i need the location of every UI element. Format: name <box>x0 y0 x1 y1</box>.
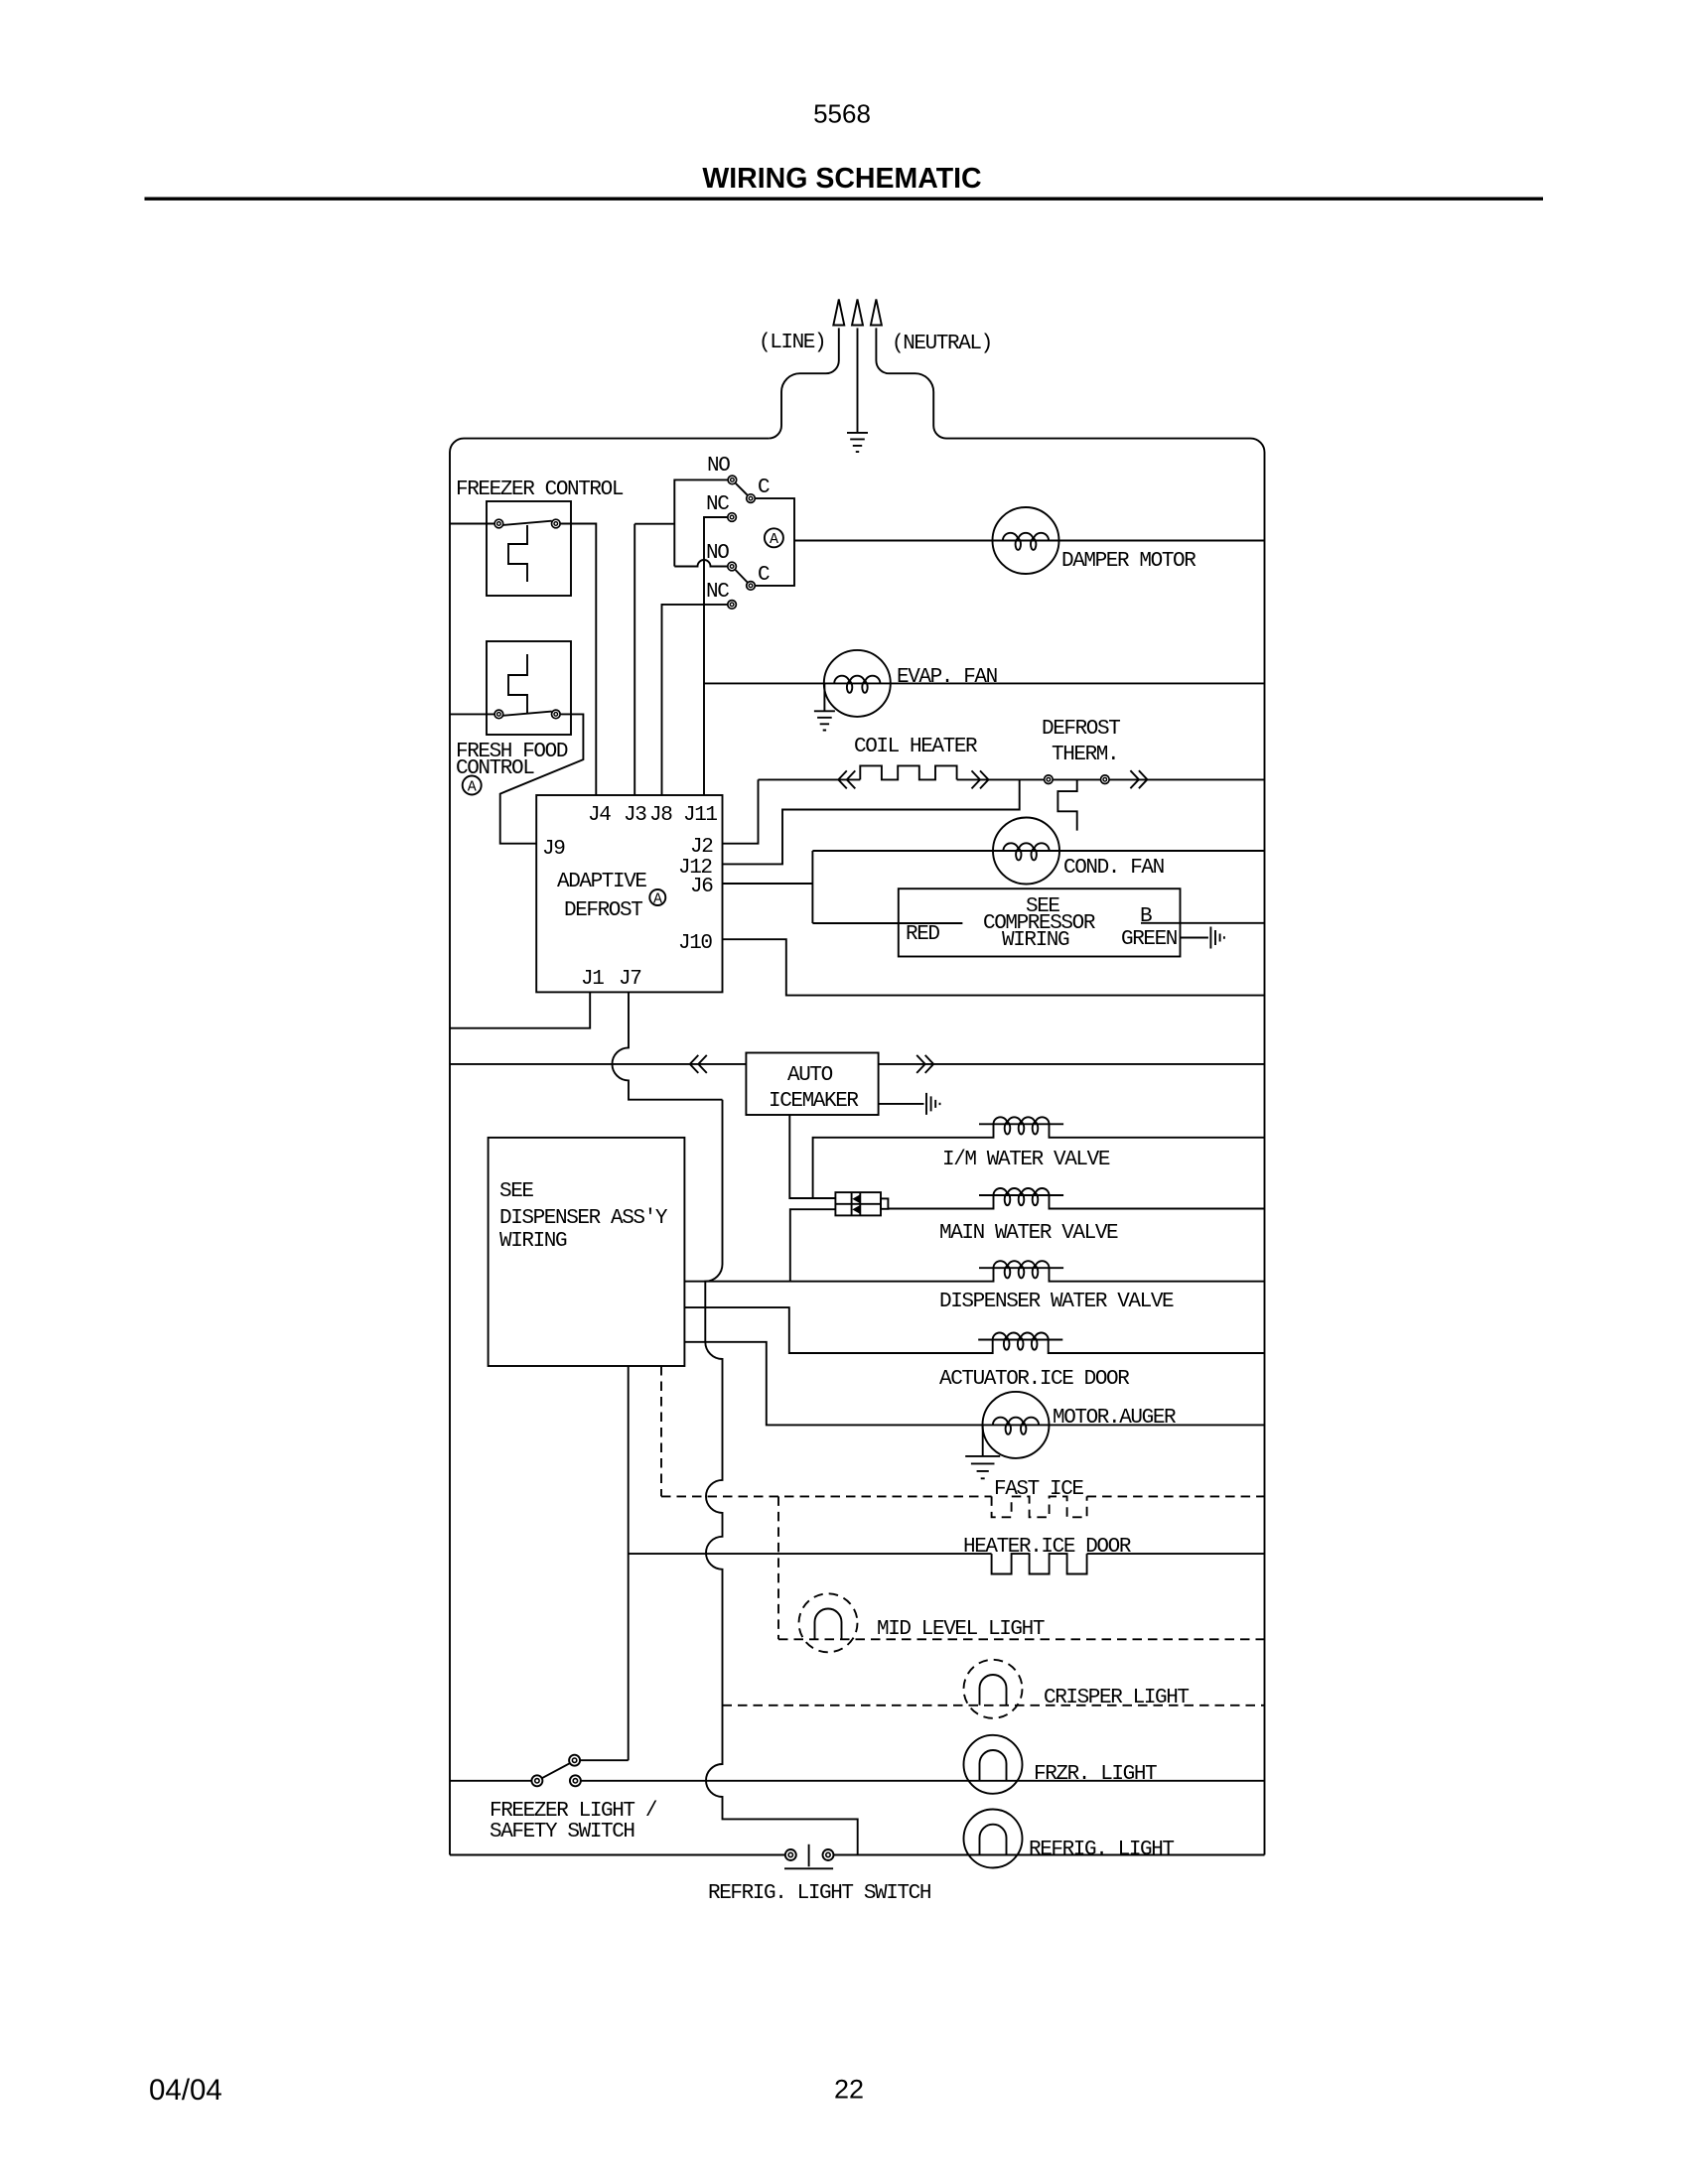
wire cond fan feed riser <box>811 851 813 923</box>
svg-text:FRZR. LIGHT: FRZR. LIGHT <box>1034 1763 1157 1786</box>
wire J6 to cond fan riser <box>723 883 813 885</box>
svg-text:REFRIG. LIGHT SWITCH: REFRIG. LIGHT SWITCH <box>708 1882 930 1905</box>
heater ice door line left <box>629 1553 992 1555</box>
wire dispenser valve right to border <box>1050 1268 1265 1282</box>
svg-text:NO: NO <box>707 455 730 478</box>
defrost therm terminal left <box>1045 775 1054 784</box>
wire evap fan feed <box>704 682 824 684</box>
freezer control thermostat zigzag <box>508 525 527 582</box>
svg-text:J3: J3 <box>624 804 646 827</box>
svg-text:NC: NC <box>706 581 729 604</box>
adaptive defrost control box <box>536 795 722 992</box>
auger ground stem <box>982 1426 984 1456</box>
see dispenser assy wiring box <box>489 1138 685 1366</box>
svg-text:WIRING: WIRING <box>1002 929 1069 952</box>
outer border top-right segment <box>946 439 1265 1855</box>
fresh food control box <box>487 641 571 735</box>
svg-text:EVAP. FAN: EVAP. FAN <box>897 666 997 689</box>
heater ice door element wave <box>992 1554 1087 1573</box>
svg-text:J9: J9 <box>542 838 565 861</box>
defrost therm terminal right <box>1101 775 1110 784</box>
svg-text:SAFETY SWITCH: SAFETY SWITCH <box>490 1821 634 1843</box>
plug pin arrow NEUTRAL <box>871 300 882 326</box>
fresh food terminal right <box>552 710 561 719</box>
safety switch blade <box>542 1763 570 1778</box>
crisper light dashed line <box>723 1705 1265 1706</box>
svg-text:FREEZER LIGHT /: FREEZER LIGHT / <box>490 1800 657 1823</box>
svg-text:J1: J1 <box>581 968 604 991</box>
svg-text:NC: NC <box>706 493 729 516</box>
relay contact terminal C1 <box>747 494 756 503</box>
mid level light filament <box>815 1609 842 1640</box>
chassis ground (icemaker) <box>926 1093 940 1115</box>
wire NC2 to J8 <box>662 605 728 795</box>
svg-text:MAIN WATER VALVE: MAIN WATER VALVE <box>939 1222 1118 1245</box>
fast ice dashed switch wave <box>992 1496 1087 1517</box>
svg-text:WIRING SCHEMATIC: WIRING SCHEMATIC <box>702 163 981 195</box>
water valve inlet triangle lower <box>852 1205 860 1214</box>
wire safety switch upper to heater drop <box>580 1759 629 1761</box>
svg-text:J2: J2 <box>690 836 713 859</box>
svg-text:FAST ICE: FAST ICE <box>994 1478 1083 1501</box>
wire left border to fresh food control <box>450 713 494 715</box>
wire icemaker chassis ground lead <box>879 1103 924 1105</box>
evap fan ground stem <box>823 684 825 711</box>
relay A frame <box>756 498 795 586</box>
svg-text:AUTO: AUTO <box>787 1064 833 1087</box>
svg-text:J4: J4 <box>588 804 611 827</box>
wire heater node tap down to J12 <box>723 779 1020 864</box>
relay contact terminal NC2 <box>728 601 737 610</box>
svg-text:J11: J11 <box>683 804 717 827</box>
fresh food switch blade <box>503 712 552 716</box>
wire fresh food control to J9 <box>500 714 584 843</box>
coil heater resistor element <box>860 765 956 779</box>
compressor wiring box <box>899 888 1181 956</box>
chassis ground (green lead) <box>1210 927 1224 949</box>
svg-text:04/04: 04/04 <box>149 2074 222 2107</box>
damper motor coil <box>993 533 1059 550</box>
svg-text:A: A <box>653 890 662 907</box>
wire ground pin stem <box>857 328 859 433</box>
evap fan earth ground <box>814 711 835 730</box>
svg-text:MID LEVEL LIGHT: MID LEVEL LIGHT <box>877 1618 1045 1641</box>
adaptive defrost circled A <box>649 889 665 907</box>
svg-text:DEFROST: DEFROST <box>1042 718 1120 741</box>
svg-text:NO: NO <box>706 542 729 565</box>
wire left border to auto icemaker <box>450 1063 746 1065</box>
wire coil heater right lead to right border <box>957 778 1265 780</box>
svg-text:(LINE): (LINE) <box>759 332 825 354</box>
title rule <box>145 198 1544 201</box>
safety switch terminal common <box>531 1775 542 1786</box>
svg-text:CRISPER LIGHT: CRISPER LIGHT <box>1044 1687 1189 1709</box>
svg-text:J6: J6 <box>690 876 713 898</box>
earth ground symbol (plug) <box>847 433 868 452</box>
svg-text:DEFROST: DEFROST <box>564 899 642 922</box>
wire NO bracket (ties NO contacts) <box>674 479 728 566</box>
connector chevrons coil heater right <box>972 770 989 788</box>
wire frzr light row <box>581 1780 1265 1782</box>
heater ice door line right to border <box>1087 1553 1265 1555</box>
wire GREEN lead <box>1181 937 1208 939</box>
wire RED lead into compressor box <box>812 922 962 924</box>
relay blade upper <box>736 483 748 495</box>
svg-text:A: A <box>770 531 778 548</box>
long vertical trunk with jogs and hops <box>705 1100 857 1855</box>
svg-text:I/M WATER VALVE: I/M WATER VALVE <box>942 1149 1110 1171</box>
bottom border right (refrig row) <box>834 1854 1265 1856</box>
refrig light switch bar <box>784 1867 833 1869</box>
cond fan motor coil <box>993 843 1059 860</box>
wire NEUTRAL drop (S-curve into border) <box>876 328 946 438</box>
wire coil heater left lead <box>759 778 861 780</box>
relay contact terminal NO2 <box>728 562 737 571</box>
wire block lower port down to dispenser row <box>790 1209 836 1282</box>
svg-text:DISPENSER WATER VALVE: DISPENSER WATER VALVE <box>939 1291 1174 1313</box>
frzr light bulb circle <box>964 1735 1023 1794</box>
auger motor coil <box>983 1418 1050 1434</box>
relay blade lower <box>736 570 748 582</box>
svg-text:WIRING: WIRING <box>499 1230 567 1253</box>
svg-text:THERM.: THERM. <box>1052 744 1118 766</box>
wire B lead to right border <box>1141 922 1265 924</box>
svg-text:COIL HEATER: COIL HEATER <box>854 736 978 758</box>
wire cond fan to right border <box>1059 850 1265 852</box>
wire damper motor to right border <box>1059 540 1265 542</box>
wire LINE drop (S-curve into border) <box>769 328 839 438</box>
svg-text:ACTUATOR.ICE DOOR: ACTUATOR.ICE DOOR <box>939 1368 1130 1391</box>
refrig light bulb circle <box>964 1810 1023 1868</box>
svg-text:J7: J7 <box>619 968 640 991</box>
svg-text:(NEUTRAL): (NEUTRAL) <box>892 333 992 355</box>
crisper light bulb circle (dashed) <box>964 1660 1023 1718</box>
damper motor circle <box>993 507 1059 574</box>
svg-text:J8: J8 <box>649 804 672 827</box>
wire main valve baseline from block <box>888 1195 993 1209</box>
mid level light dashed line to border <box>778 1638 1265 1640</box>
safety switch terminal upper <box>569 1755 580 1766</box>
svg-text:FREEZER CONTROL: FREEZER CONTROL <box>456 478 624 501</box>
wire cond fan lead <box>812 850 993 852</box>
wire actuator right to border <box>1049 1340 1265 1354</box>
connector chevrons coil heater left <box>838 770 855 788</box>
main water valve coil <box>979 1188 1063 1205</box>
fast ice dashed line right to border <box>1087 1495 1265 1497</box>
freezer control switch blade <box>503 521 552 525</box>
svg-text:REFRIG. LIGHT: REFRIG. LIGHT <box>1029 1839 1174 1861</box>
wire J10 to right border (neutral trunk) <box>723 939 1265 995</box>
svg-text:SEE: SEE <box>499 1180 533 1203</box>
refrig light switch terminal right <box>823 1849 834 1860</box>
wire left border to safety switch <box>450 1780 531 1782</box>
I/M water valve coil <box>979 1117 1063 1134</box>
relay contact terminal NO1 <box>728 476 737 484</box>
freezer control terminal left <box>494 519 503 528</box>
svg-text:22: 22 <box>834 2075 864 2105</box>
water valve block body <box>835 1192 888 1215</box>
wire I/M valve baseline left with riser to block wire <box>813 1124 994 1198</box>
svg-text:COND. FAN: COND. FAN <box>1063 857 1164 880</box>
auto icemaker box <box>746 1053 878 1116</box>
wire main valve right to border <box>1050 1195 1265 1209</box>
svg-text:RED: RED <box>906 923 939 946</box>
refrig light filament <box>980 1825 1007 1855</box>
svg-text:HEATER.ICE DOOR: HEATER.ICE DOOR <box>963 1536 1132 1559</box>
wire left border to freezer control <box>450 523 494 525</box>
defrost therm bimetal step <box>1057 779 1076 830</box>
svg-text:ICEMAKER: ICEMAKER <box>769 1090 859 1113</box>
wire J1 to left border <box>450 992 590 1027</box>
svg-text:A: A <box>468 778 477 795</box>
refrig light switch plunger <box>808 1844 810 1867</box>
wire dispenser valve baseline <box>684 1268 993 1282</box>
wire NC1 to evap junction to J11 <box>704 517 728 795</box>
crisper light filament <box>980 1675 1007 1706</box>
wire icemaker bottom pin to water valve block <box>789 1115 835 1198</box>
svg-text:GREEN: GREEN <box>1121 928 1177 951</box>
outer border left edge <box>450 439 464 1855</box>
svg-text:MOTOR.AUGER: MOTOR.AUGER <box>1053 1407 1177 1430</box>
connector chevrons after defrost therm <box>1130 770 1147 788</box>
safety switch terminal lower <box>570 1775 581 1786</box>
relay contact terminal NC1 <box>728 513 737 522</box>
fast ice dashed line left <box>661 1495 992 1497</box>
auger earth ground <box>965 1456 1000 1478</box>
wire evap fan to right border <box>891 682 1265 684</box>
fresh food thermostat zigzag <box>508 654 527 714</box>
evap fan motor coil <box>824 676 891 693</box>
evap fan motor circle <box>824 650 891 717</box>
frzr light filament <box>980 1750 1007 1781</box>
wire freezer control to J4 <box>560 524 596 796</box>
water valve inlet triangle upper <box>852 1194 860 1203</box>
fresh food circled A <box>463 776 482 796</box>
bottom border left (refrig row) <box>450 1854 784 1856</box>
fresh food terminal left <box>494 710 503 719</box>
auger motor circle <box>983 1392 1050 1458</box>
heater ice door drop from box <box>628 1366 630 1760</box>
freezer control terminal right <box>552 519 561 528</box>
svg-text:J10: J10 <box>678 932 712 955</box>
wire J2 to coil heater riser <box>723 779 759 843</box>
svg-text:DAMPER MOTOR: DAMPER MOTOR <box>1061 550 1196 573</box>
wire auger motor to right border <box>1050 1424 1265 1426</box>
cond fan motor circle <box>993 818 1059 885</box>
svg-text:B: B <box>1140 905 1152 928</box>
mid level light dashed drop <box>777 1496 779 1639</box>
dispenser water valve coil <box>979 1261 1063 1278</box>
wire relay to damper motor <box>794 540 993 542</box>
plug pin arrow LINE <box>833 300 844 326</box>
wire I/M valve right to border <box>1050 1124 1265 1138</box>
connector chevrons icemaker left <box>690 1055 707 1073</box>
svg-text:ADAPTIVE: ADAPTIVE <box>557 871 646 893</box>
actuator ice door coil <box>978 1333 1062 1350</box>
wire actuator feed <box>684 1307 992 1353</box>
svg-text:C: C <box>758 564 770 587</box>
svg-text:C: C <box>758 477 770 499</box>
wire J3 riser and tap to NO bracket <box>634 524 674 795</box>
wire auger motor feed <box>684 1342 982 1426</box>
refrig light switch terminal left <box>785 1849 796 1860</box>
connector chevrons icemaker right <box>916 1055 933 1073</box>
wire icemaker to right border <box>879 1063 1265 1065</box>
outer border top-left segment <box>464 438 769 440</box>
plug pin arrow ground (center) <box>852 300 863 326</box>
svg-text:DISPENSER ASS'Y: DISPENSER ASS'Y <box>499 1207 668 1230</box>
wire J7 drop with hop <box>613 992 723 1099</box>
relay coil circled A <box>765 528 783 548</box>
freezer control box <box>487 501 571 596</box>
relay contact terminal C2 <box>747 582 756 591</box>
svg-text:5568: 5568 <box>813 99 871 129</box>
mid level light bulb circle (dashed) <box>799 1593 858 1652</box>
fast ice dashed drop from box <box>660 1366 662 1496</box>
